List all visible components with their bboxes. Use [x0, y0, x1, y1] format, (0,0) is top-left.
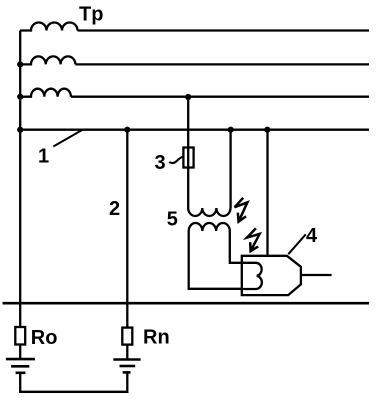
fuse 3 body	[183, 148, 193, 168]
transformer 5 secondary winding	[189, 223, 230, 231]
wire secondary right end down and right to horn 4	[230, 231, 242, 263]
svg-text:1: 1	[38, 146, 49, 168]
ground electrode of Rn (bar 1)	[113, 358, 140, 361]
svg-text:Ro: Ro	[31, 327, 58, 349]
svg-text:4: 4	[306, 225, 318, 247]
leader line for label 1	[53, 130, 82, 147]
wire phase line B right segment	[75, 63, 369, 65]
svg-text:3: 3	[155, 152, 166, 174]
junction node on busbar at branch 2	[124, 127, 130, 133]
junction node on line B at left bus	[17, 61, 23, 67]
wire phase line A right segment	[78, 29, 370, 31]
resistor Ro body	[15, 327, 25, 345]
junction node on busbar at primary winding	[228, 127, 234, 133]
wire bonding conductor between ground electrodes	[20, 372, 127, 391]
wire primary right end up to busbar junction	[229, 130, 231, 208]
wire resistor Ro bottom lead	[19, 345, 21, 360]
junction node on busbar at left bus	[17, 127, 23, 133]
ground electrode of Rn (bar 3)	[123, 371, 131, 374]
wire fuse branch vertical from line C	[187, 97, 189, 208]
leader line for label 4	[288, 234, 306, 254]
svg-text:5: 5	[167, 209, 178, 231]
leader line for label 3	[169, 157, 183, 164]
wire vertical from busbar junction down to horn 4 top	[266, 130, 268, 255]
transformer Tp winding phase B (coil on line 2)	[20, 56, 75, 64]
wire phase line C right segment	[71, 96, 369, 98]
junction node on line C at fuse branch	[185, 94, 191, 100]
ground electrode of Ro (bar 2)	[11, 365, 29, 368]
transformer Tp winding phase C (coil on line 3)	[20, 89, 71, 97]
ground electrode of Ro (bar 3)	[16, 371, 26, 374]
svg-text:2: 2	[109, 198, 120, 220]
surge arrow at horn input	[247, 228, 260, 251]
horn 4 electromagnetic driver (3-shape)	[242, 263, 262, 289]
svg-text:Rn: Rn	[143, 327, 170, 349]
wire resistor Rn bottom lead	[126, 345, 128, 360]
wire branch 2 vertical down to resistor Rn	[126, 130, 128, 328]
junction node on line C at left bus	[17, 94, 23, 100]
surge arrow between transformer windings	[235, 198, 248, 222]
ground electrode of Rn (bar 2)	[120, 365, 136, 368]
junction node on busbar at horn branch	[264, 127, 270, 133]
wire earth bus line	[3, 302, 370, 305]
transformer Tp winding phase A (coil on line 1)	[20, 23, 78, 31]
ground electrode of Ro (bar 1)	[6, 358, 35, 361]
wire horn 4 output lead	[301, 274, 332, 276]
wire busbar 1 (fourth horizontal line)	[20, 129, 369, 131]
transformer 5 primary winding	[188, 208, 230, 216]
wire left vertical bus down to resistor Ro	[19, 31, 21, 328]
wire secondary left end down and right to horn 4	[189, 231, 242, 289]
resistor Rn body	[122, 328, 132, 345]
horn 4 body outline	[242, 256, 301, 295]
svg-text:Tp: Tp	[79, 3, 103, 25]
